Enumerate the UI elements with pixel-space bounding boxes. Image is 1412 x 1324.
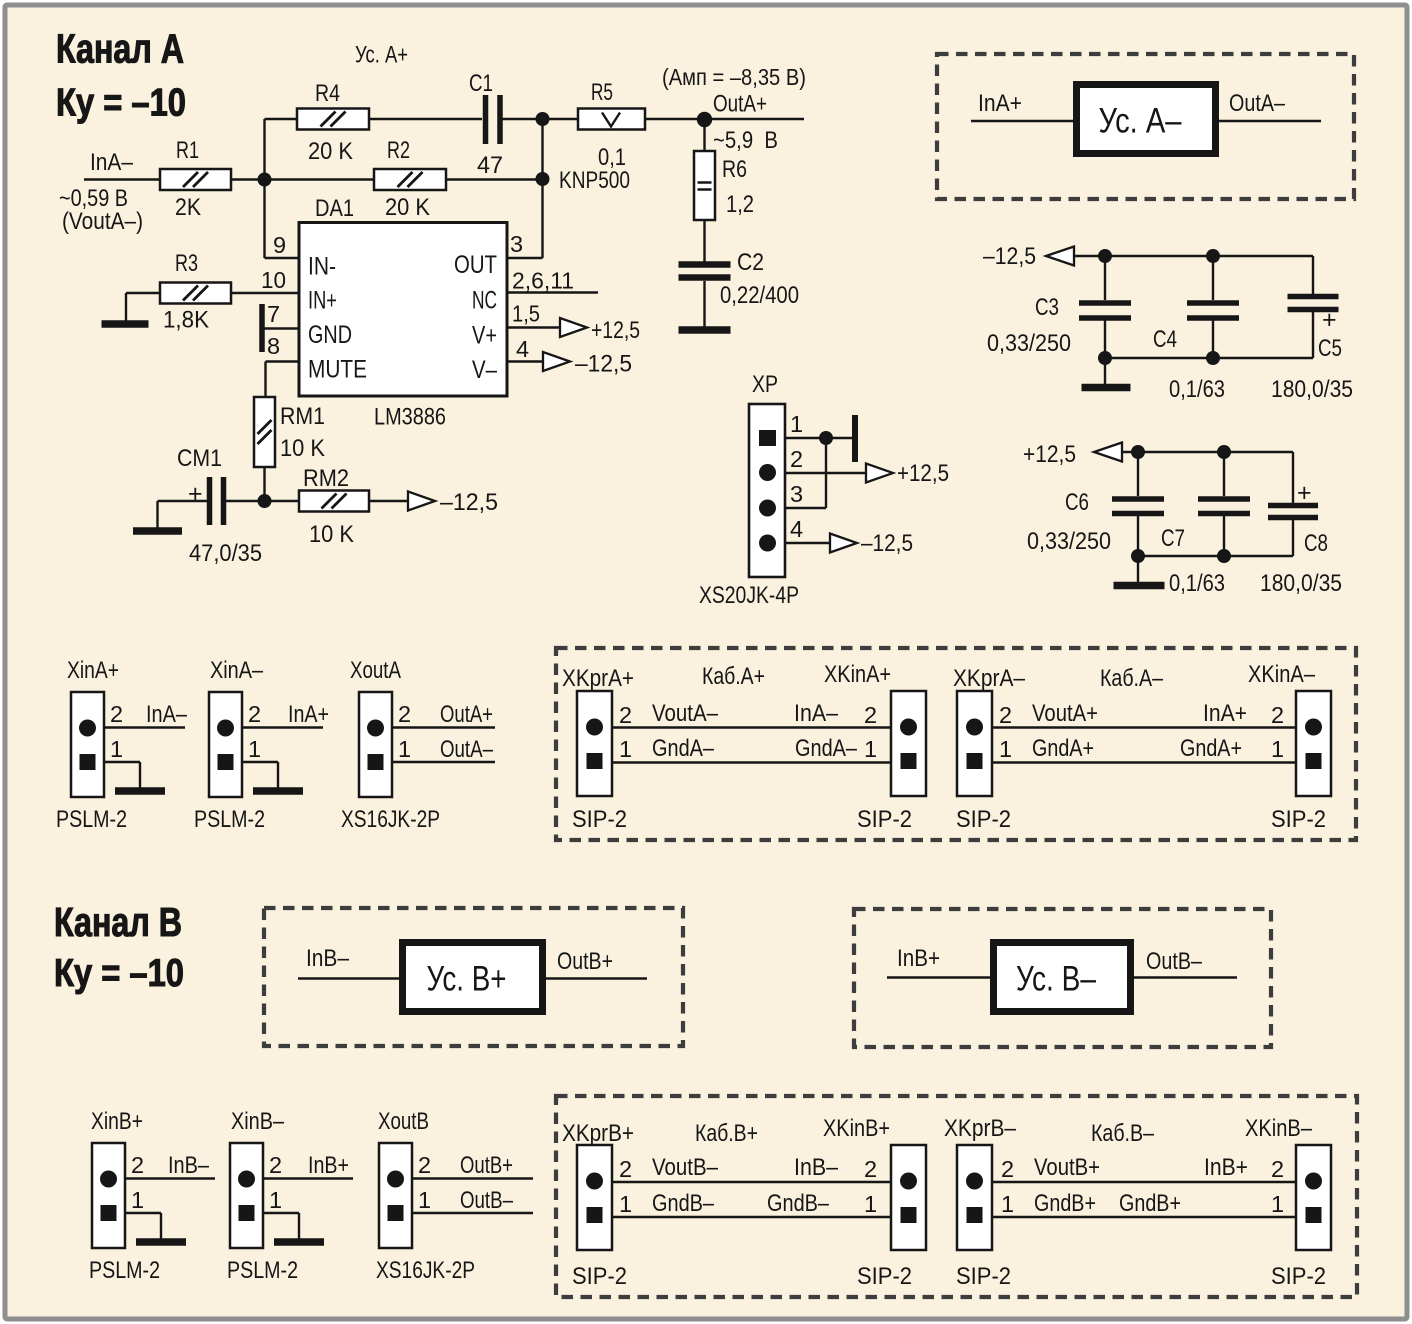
wire pin 9 stub into IN- — [265, 257, 300, 259]
svg-text:XKprB+: XKprB+ — [562, 1120, 634, 1147]
svg-text:2K: 2K — [175, 194, 201, 221]
amplifier block Ус. B– — [994, 943, 1131, 1012]
resistor R5 (fusible, V mark) — [578, 109, 645, 130]
wire R3 left to ground drop — [126, 292, 160, 294]
svg-text:1: 1 — [1001, 1191, 1014, 1217]
svg-text:IN+: IN+ — [308, 287, 337, 315]
capacitor CM1 (polarized, two vertical plates) — [207, 477, 213, 525]
wire InB+ to block — [887, 976, 990, 978]
wire XinA– pin2 — [242, 726, 323, 728]
wire OUT pin 3 stub — [507, 257, 543, 259]
svg-text:1: 1 — [619, 736, 632, 762]
wire junction down to OUT stub — [541, 179, 543, 258]
svg-text:SIP-2: SIP-2 — [1271, 806, 1326, 833]
svg-text:Каб.B–: Каб.B– — [1091, 1120, 1155, 1147]
svg-text:KNP500: KNP500 — [559, 167, 630, 194]
svg-text:VoutA+: VoutA+ — [1032, 700, 1098, 727]
capacitor C5 (electrolytic) — [1288, 297, 1339, 310]
svg-text:(Амп = –8,35 В): (Амп = –8,35 В) — [662, 64, 806, 90]
svg-text:Канал B: Канал B — [54, 899, 182, 945]
ground (XinA–) — [253, 787, 303, 795]
wire XP pin4 stub — [785, 542, 830, 544]
svg-text:–12,5: –12,5 — [440, 489, 498, 516]
wire block to OutB+ — [546, 977, 647, 979]
svg-text:7: 7 — [267, 301, 280, 327]
svg-text:InB+: InB+ — [1204, 1154, 1248, 1181]
svg-text:XP: XP — [752, 371, 778, 398]
svg-text:XinB+: XinB+ — [91, 1108, 143, 1135]
wire XinB– pin1 — [263, 1212, 299, 1214]
XP pin 2 round contact — [759, 464, 776, 481]
connector XoutA body — [359, 692, 392, 797]
svg-text:PSLM-2: PSLM-2 — [194, 806, 265, 833]
power arrow +12,5 (rail, left-pointing) — [1094, 443, 1122, 462]
wire XinB+ pin1 drop — [160, 1213, 162, 1239]
wire C3 bottom lead — [1104, 321, 1106, 359]
wire C6 bottom lead — [1137, 516, 1139, 556]
ground (CM1) — [133, 527, 182, 535]
ground (XinB+) — [136, 1238, 186, 1246]
svg-text:R4: R4 — [315, 80, 340, 107]
svg-text:GndB–: GndB– — [767, 1190, 830, 1217]
svg-text:V–: V– — [472, 356, 497, 384]
svg-text:1: 1 — [1271, 736, 1284, 762]
wire OutA+ down to R6 — [703, 119, 705, 151]
svg-text:GndA–: GndA– — [652, 735, 715, 762]
svg-text:InA–: InA– — [90, 149, 134, 176]
svg-text:2: 2 — [131, 1152, 144, 1178]
svg-text:+: + — [1322, 306, 1337, 334]
wire R2 to junction — [446, 178, 543, 180]
wire GndA+ (cable A– pin1) — [992, 761, 1296, 763]
wire MUTE down to RM1 — [264, 362, 266, 398]
svg-text:10 K: 10 K — [309, 521, 354, 548]
wire C8 bottom lead to bottom rail corner — [1292, 520, 1294, 556]
svg-text:XoutB: XoutB — [378, 1108, 429, 1135]
wire R3 to IN+ pin 10 — [230, 292, 299, 294]
svg-text:Ус. B+: Ус. B+ — [427, 960, 507, 999]
wire top row to R4 — [265, 118, 298, 120]
connector XKinB– body — [1296, 1145, 1331, 1250]
svg-text:2,6,11: 2,6,11 — [512, 268, 574, 294]
node C6 top — [1131, 445, 1145, 459]
wire XinA+ pin2 — [104, 726, 185, 728]
wire InA+ to block — [971, 120, 1073, 122]
node junction R2 output — [536, 172, 550, 186]
svg-text:0,22/400: 0,22/400 — [720, 282, 799, 309]
wire C6 top lead — [1137, 452, 1139, 496]
wire XinA+ pin1 — [104, 761, 140, 763]
svg-text:1: 1 — [418, 1187, 431, 1213]
svg-text:1: 1 — [619, 1191, 632, 1217]
svg-text:1: 1 — [790, 411, 803, 437]
svg-text:SIP-2: SIP-2 — [857, 1263, 912, 1290]
svg-text:0,1/63: 0,1/63 — [1169, 570, 1225, 597]
svg-text:OutB+: OutB+ — [460, 1152, 513, 1179]
svg-text:(VoutA–): (VoutA–) — [62, 208, 143, 235]
resistor R2 — [374, 169, 446, 190]
XP pin 1 square contact — [759, 430, 776, 446]
connector XKinA+ body — [891, 691, 926, 796]
svg-text:Ус. A–: Ус. A– — [1099, 102, 1182, 141]
wire C4 top lead — [1212, 256, 1214, 300]
node junction R1/R2/R4/IN- — [258, 173, 272, 187]
dashed box cables channel A — [556, 648, 1356, 840]
svg-text:PSLM-2: PSLM-2 — [56, 806, 127, 833]
svg-text:SIP-2: SIP-2 — [572, 806, 627, 833]
node junction C1/R5/pin3 column — [536, 112, 550, 126]
wire XinB+ pin1 — [125, 1212, 161, 1214]
svg-text:GndB–: GndB– — [652, 1190, 715, 1217]
wire GND stub to pin — [264, 327, 299, 329]
svg-text:XKinB+: XKinB+ — [823, 1115, 890, 1142]
svg-text:0,33/250: 0,33/250 — [1027, 528, 1111, 555]
svg-text:C2: C2 — [737, 249, 764, 276]
common bar (XP pin1) — [852, 415, 858, 462]
svg-text:OutA+: OutA+ — [713, 91, 767, 118]
svg-text:R2: R2 — [387, 137, 410, 164]
svg-text:+12,5: +12,5 — [897, 460, 949, 487]
wire XoutA pin2 — [392, 726, 495, 728]
wire RM2 to arrow — [369, 500, 408, 502]
svg-text:–12,5: –12,5 — [575, 351, 632, 378]
svg-text:2: 2 — [1001, 1156, 1014, 1182]
svg-text:Канал A: Канал A — [56, 26, 184, 72]
wire R5 to OutA+ node — [645, 118, 804, 120]
svg-text:C8: C8 — [1304, 530, 1328, 557]
node C7 top — [1217, 445, 1231, 459]
dashed box amplifier B+ — [264, 908, 683, 1046]
svg-text:XS16JK-2P: XS16JK-2P — [341, 806, 440, 833]
svg-text:InB–: InB– — [168, 1152, 210, 1179]
capacitor C4 — [1187, 303, 1239, 318]
power arrow +12,5 (V+) — [560, 318, 587, 337]
dashed box cables channel B — [556, 1096, 1357, 1297]
wire R6 to C2 — [703, 220, 705, 262]
svg-text:3: 3 — [790, 481, 803, 507]
XP pin 4 round contact — [759, 535, 776, 552]
svg-text:InA–: InA– — [794, 700, 839, 727]
wire XP junction down to pin3 — [825, 438, 827, 508]
svg-text:1: 1 — [248, 736, 261, 762]
svg-text:20 K: 20 K — [385, 194, 430, 221]
svg-text:InA+: InA+ — [1203, 700, 1247, 727]
wire riser node A down to pin9 stub — [263, 180, 265, 259]
dashed box amplifier A– — [937, 54, 1354, 199]
wire C3 top lead — [1104, 256, 1106, 300]
svg-text:SIP-2: SIP-2 — [857, 806, 912, 833]
wire GndB+ (cable B– pin1) — [992, 1216, 1296, 1218]
svg-text:SIP-2: SIP-2 — [956, 1263, 1011, 1290]
svg-text:2: 2 — [1271, 1156, 1284, 1182]
svg-text:GndA–: GndA– — [795, 735, 858, 762]
wire XinA– pin1 drop — [277, 762, 279, 788]
connector XKinA– body — [1296, 691, 1331, 796]
wire C7 top lead — [1223, 452, 1225, 496]
wire +12,5 rail top — [1122, 451, 1293, 453]
svg-text:XoutA: XoutA — [350, 657, 401, 684]
svg-text:1: 1 — [398, 736, 411, 762]
resistor R1 — [160, 169, 231, 190]
wire RM1 to CM1 node — [263, 467, 265, 501]
svg-text:–12,5: –12,5 — [983, 243, 1036, 270]
svg-text:C7: C7 — [1161, 525, 1185, 552]
capacitor C3 — [1079, 303, 1131, 318]
connector XKinB+ body — [891, 1145, 926, 1250]
svg-text:+12,5: +12,5 — [591, 317, 640, 344]
svg-text:InA+: InA+ — [978, 90, 1022, 117]
wire XinB– pin1 drop — [298, 1213, 300, 1239]
wire rail bottom — [1105, 357, 1313, 359]
wire XinB+ pin2 — [125, 1177, 215, 1179]
wire C8 top lead (corner) — [1292, 452, 1294, 503]
wire C3 bottom to ground — [1104, 358, 1106, 384]
capacitor C2 (two thick plates) — [679, 265, 731, 278]
svg-text:C6: C6 — [1065, 489, 1089, 516]
node C3 bottom — [1098, 351, 1112, 365]
svg-text:NC: NC — [472, 287, 497, 315]
resistor R3 — [160, 283, 231, 304]
svg-text:1: 1 — [131, 1187, 144, 1213]
svg-text:1,5: 1,5 — [512, 301, 540, 327]
svg-text:1: 1 — [1271, 1191, 1284, 1217]
svg-text:RM1: RM1 — [280, 403, 325, 430]
svg-text:47,0/35: 47,0/35 — [189, 540, 262, 567]
svg-text:–12,5: –12,5 — [861, 530, 913, 557]
wire V+ stub — [507, 326, 560, 328]
svg-text:~5,9 В: ~5,9 В — [713, 127, 778, 154]
svg-text:+12,5: +12,5 — [1023, 441, 1076, 468]
connector XinA– body — [209, 692, 242, 797]
svg-text:XKinA+: XKinA+ — [824, 661, 891, 688]
svg-text:XinA–: XinA– — [210, 657, 264, 684]
resistor R4 — [297, 109, 369, 130]
dashed box amplifier B– — [854, 909, 1271, 1047]
connector XinB– body — [230, 1143, 263, 1248]
node C6 bottom — [1131, 549, 1145, 563]
wire C5 top lead (corner) — [1312, 256, 1314, 294]
svg-text:DA1: DA1 — [315, 195, 354, 222]
svg-text:GndA+: GndA+ — [1032, 735, 1094, 762]
svg-text:+: + — [188, 480, 203, 508]
wire C5 bottom lead to bottom rail corner — [1312, 312, 1314, 358]
svg-text:2: 2 — [398, 701, 411, 727]
ground (XinA+) — [115, 787, 165, 795]
svg-text:R5: R5 — [591, 79, 613, 106]
amplifier block Ус. A– — [1077, 85, 1216, 154]
svg-text:OutB+: OutB+ — [557, 948, 613, 975]
svg-text:XinA+: XinA+ — [67, 657, 119, 684]
svg-text:XKinA–: XKinA– — [1248, 661, 1316, 688]
wire C2 to ground — [703, 281, 705, 327]
resistor RM2 — [299, 491, 369, 512]
power arrow +12,5 (XP) — [866, 464, 893, 483]
svg-text:Каб.A+: Каб.A+ — [702, 663, 765, 690]
wire CM1 left plate to ground drop — [158, 500, 208, 502]
wire XinA+ pin1 drop — [139, 762, 141, 788]
svg-text:GndB+: GndB+ — [1119, 1190, 1181, 1217]
svg-text:Каб.A–: Каб.A– — [1100, 665, 1164, 692]
svg-text:10 K: 10 K — [280, 435, 325, 462]
svg-text:InB–: InB– — [794, 1154, 839, 1181]
svg-text:1: 1 — [999, 736, 1012, 762]
connector XKprA– body — [957, 691, 992, 796]
wire node to RM2 — [265, 500, 300, 502]
svg-text:C1: C1 — [469, 70, 493, 97]
svg-text:0,33/250: 0,33/250 — [987, 330, 1071, 357]
svg-text:Каб.B+: Каб.B+ — [695, 1120, 758, 1147]
svg-text:XinB–: XinB– — [231, 1108, 285, 1135]
wire XoutB pin1 — [412, 1212, 533, 1214]
wire NC stub 2,6,11 — [507, 291, 598, 293]
svg-text:PSLM-2: PSLM-2 — [227, 1257, 298, 1284]
ground (C6 bank) — [1114, 582, 1165, 590]
wire VoutA+ (cable A– pin2) — [992, 726, 1296, 728]
connector XKprA+ body — [577, 691, 612, 796]
connector XinB+ body — [92, 1143, 125, 1248]
svg-text:Ку = –10: Ку = –10 — [54, 952, 184, 995]
svg-text:1: 1 — [110, 736, 123, 762]
capacitor C8 (electrolytic) — [1268, 506, 1318, 518]
svg-text:IN-: IN- — [308, 253, 336, 281]
XP pin 3 round contact — [759, 500, 776, 517]
node C3 top — [1098, 249, 1112, 263]
ground (C2) — [679, 326, 731, 334]
wire XinB– pin2 — [263, 1177, 353, 1179]
svg-text:C4: C4 — [1153, 326, 1177, 353]
wire node A to R2 — [265, 178, 375, 180]
svg-text:GND: GND — [308, 321, 352, 349]
svg-text:PSLM-2: PSLM-2 — [89, 1257, 160, 1284]
svg-text:+: + — [1297, 479, 1312, 507]
connector XoutB body — [379, 1143, 412, 1248]
svg-text:SIP-2: SIP-2 — [1271, 1263, 1326, 1290]
wire block to OutA– — [1218, 120, 1321, 122]
wire XP pin2 stub — [785, 472, 866, 474]
node XP pin1 junction — [819, 431, 833, 445]
svg-text:OutB–: OutB– — [460, 1187, 514, 1214]
svg-text:2: 2 — [1271, 702, 1284, 728]
op-amp DA1 LM3886 body — [299, 223, 507, 397]
wire XinA– pin1 — [242, 761, 278, 763]
svg-text:SIP-2: SIP-2 — [572, 1263, 627, 1290]
svg-text:LM3886: LM3886 — [374, 404, 446, 431]
wire C6 bottom to ground — [1137, 556, 1139, 582]
capacitor C6 — [1112, 499, 1164, 514]
svg-text:2: 2 — [864, 1156, 877, 1182]
svg-text:R1: R1 — [176, 137, 199, 164]
GND pins 7,8 tie bar — [259, 304, 265, 352]
node C4 top — [1206, 249, 1220, 263]
connector XinA+ body — [71, 692, 104, 797]
svg-text:2: 2 — [619, 702, 632, 728]
wire XoutB pin2 — [412, 1177, 533, 1179]
wire –12,5 rail top — [1074, 255, 1313, 257]
svg-text:Ус. A+: Ус. A+ — [355, 42, 408, 69]
svg-text:OutA–: OutA– — [440, 736, 494, 763]
wire block to OutB– — [1134, 976, 1237, 978]
svg-text:R3: R3 — [175, 250, 198, 277]
svg-text:XKinB–: XKinB– — [1245, 1115, 1313, 1142]
svg-text:4: 4 — [790, 516, 803, 542]
wire C1 to junction — [503, 118, 544, 120]
capacitor C7 — [1198, 499, 1250, 514]
wire input to R1 — [84, 178, 160, 180]
ground (C3 bank) — [1082, 384, 1131, 392]
wire GndA– (cable A+ pin1) — [612, 761, 891, 763]
svg-text:InB–: InB– — [306, 945, 350, 972]
svg-text:GndA+: GndA+ — [1180, 735, 1242, 762]
power arrow –12,5 (XP) — [830, 534, 857, 553]
wire R1 to node A junction — [231, 178, 265, 180]
wire VoutB+ (cable B– pin2) — [992, 1181, 1296, 1183]
svg-text:2: 2 — [248, 701, 261, 727]
svg-text:R6: R6 — [722, 156, 747, 183]
wire VoutA– (cable A+ pin2) — [612, 726, 891, 728]
wire VoutB– (cable B+ pin2) — [612, 1181, 891, 1183]
resistor RM1 (vertical) — [254, 397, 275, 467]
wire C7 bottom lead — [1223, 516, 1225, 556]
svg-text:1: 1 — [864, 736, 877, 762]
svg-text:VoutB+: VoutB+ — [1034, 1154, 1100, 1181]
wire CM1 right plate to node — [226, 500, 265, 502]
svg-text:3: 3 — [510, 231, 523, 257]
svg-text:XKprA+: XKprA+ — [562, 665, 634, 692]
wire R4 to C1 — [369, 118, 482, 120]
svg-text:VoutA–: VoutA– — [652, 700, 719, 727]
svg-text:1: 1 — [864, 1191, 877, 1217]
power arrow –12,5 (V–) — [543, 352, 570, 371]
svg-text:180,0/35: 180,0/35 — [1271, 376, 1353, 403]
svg-text:2: 2 — [110, 701, 123, 727]
svg-text:2: 2 — [418, 1152, 431, 1178]
wire InB– to block — [298, 977, 399, 979]
wire junction to R5 — [543, 118, 579, 120]
wire MUTE stub — [266, 360, 300, 362]
ground (XinB–) — [274, 1238, 324, 1246]
svg-text:V+: V+ — [472, 322, 497, 350]
svg-text:2: 2 — [999, 702, 1012, 728]
svg-text:OutB–: OutB– — [1146, 948, 1203, 975]
wire XP pin1 stub — [785, 437, 852, 439]
node C7 bottom — [1217, 549, 1231, 563]
svg-text:20 K: 20 K — [308, 138, 353, 165]
svg-text:InA–: InA– — [146, 701, 188, 728]
svg-text:XS16JK-2P: XS16JK-2P — [376, 1257, 475, 1284]
svg-text:InB+: InB+ — [308, 1152, 349, 1179]
svg-text:C3: C3 — [1035, 294, 1059, 321]
amplifier block Ус. B+ — [403, 943, 543, 1012]
connector XKprB– body — [957, 1145, 992, 1250]
svg-text:9: 9 — [273, 232, 286, 258]
svg-text:1,8K: 1,8K — [163, 307, 209, 334]
svg-text:180,0/35: 180,0/35 — [1260, 570, 1342, 597]
svg-text:10: 10 — [261, 267, 286, 293]
svg-text:1,2: 1,2 — [726, 191, 754, 218]
wire GndB– (cable B+ pin1) — [612, 1216, 891, 1218]
svg-text:C5: C5 — [1318, 335, 1342, 362]
svg-text:4: 4 — [516, 336, 529, 362]
svg-text:MUTE: MUTE — [308, 356, 367, 384]
connector XP body — [749, 404, 785, 577]
wire riser node A up to R4 row — [263, 119, 265, 180]
connector XKprB+ body — [577, 1145, 612, 1250]
wire rail bottom (+ bank) — [1138, 555, 1293, 557]
svg-text:2: 2 — [619, 1156, 632, 1182]
svg-text:1: 1 — [269, 1187, 282, 1213]
power arrow –12,5 (RM2) — [408, 492, 435, 511]
svg-text:2: 2 — [790, 446, 803, 472]
